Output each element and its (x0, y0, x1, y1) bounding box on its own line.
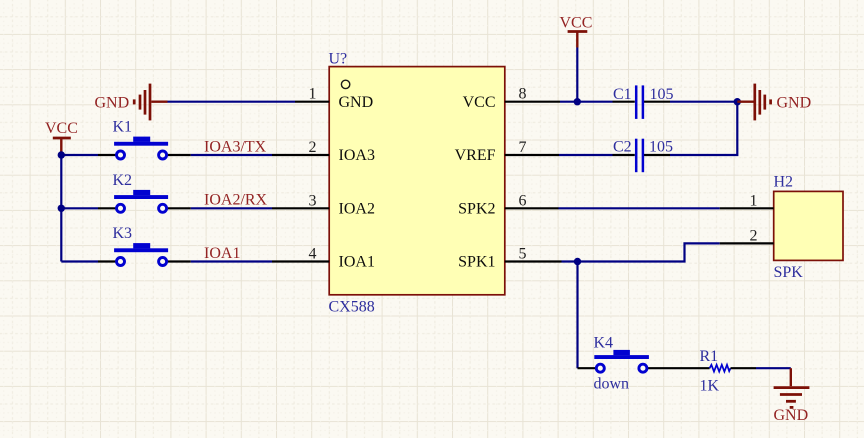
svg-text:3: 3 (309, 192, 317, 209)
svg-text:1: 1 (750, 193, 758, 210)
svg-text:K4: K4 (594, 334, 614, 351)
power port VCC (top) (568, 32, 588, 48)
pin 2 lead (272, 154, 329, 156)
svg-text:GND: GND (774, 407, 809, 424)
svg-text:VCC: VCC (560, 15, 593, 32)
wire VCC down to pin 8 net (576, 48, 578, 102)
power port VCC (left) (53, 138, 71, 152)
junction rail-K1 (58, 151, 65, 158)
pin 6 lead (505, 207, 559, 209)
switch K3 (98, 243, 191, 265)
svg-text:SPK2: SPK2 (458, 200, 495, 217)
resistor R1 (710, 365, 756, 372)
svg-text:IOA3/TX: IOA3/TX (204, 138, 267, 155)
pin 5 lead (505, 260, 562, 262)
wire rail to K1 (61, 154, 98, 156)
svg-text:2: 2 (750, 228, 758, 245)
wire pin 8 to C1 (560, 101, 613, 103)
ground GND (bottom) (774, 368, 810, 407)
svg-text:VCC: VCC (45, 120, 78, 137)
svg-text:H2: H2 (774, 173, 794, 190)
wire rail to K2 (61, 207, 98, 209)
capacitor C2 (613, 139, 671, 173)
svg-text:GND: GND (777, 95, 812, 112)
wire VCC rail vertical (60, 152, 62, 262)
svg-text:VREF: VREF (455, 147, 496, 164)
svg-text:GND: GND (339, 94, 374, 111)
wire C2 up to GND junction (670, 103, 737, 155)
svg-text:C2: C2 (613, 139, 632, 156)
wire R1 to GND (756, 367, 791, 369)
switch K2 (98, 190, 191, 212)
svg-text:R1: R1 (700, 348, 719, 365)
svg-text:6: 6 (519, 192, 527, 209)
svg-text:GND: GND (95, 95, 130, 112)
pin 3 lead (272, 207, 329, 209)
svg-text:K3: K3 (113, 225, 133, 242)
svg-text:8: 8 (519, 86, 527, 103)
svg-text:K2: K2 (113, 172, 133, 189)
svg-text:C1: C1 (613, 86, 632, 103)
pin 7 lead (505, 154, 559, 156)
switch K1 (98, 137, 191, 159)
wire SPK1 down to K4 (576, 262, 578, 369)
wire K2 to pin 3 (191, 207, 272, 209)
svg-text:7: 7 (519, 139, 527, 156)
junction VCC-pin8 (574, 98, 581, 105)
wire K1 to pin 2 (191, 154, 272, 156)
svg-text:CX588: CX588 (329, 299, 375, 316)
svg-text:IOA1: IOA1 (339, 254, 375, 271)
wire K3 to pin 4 (191, 260, 272, 262)
svg-text:105: 105 (650, 86, 674, 103)
junction SPK1 (574, 258, 581, 265)
svg-text:4: 4 (309, 246, 317, 263)
pin 4 lead (272, 260, 329, 262)
op-amp U? : IC body CX588 (329, 67, 505, 295)
pin 8 lead (505, 101, 560, 103)
svg-text:IOA2: IOA2 (339, 200, 375, 217)
svg-text:K1: K1 (113, 119, 133, 136)
wire rail to K3 (61, 260, 98, 262)
svg-text:1K: 1K (700, 377, 720, 394)
svg-text:2: 2 (309, 139, 317, 156)
svg-text:IOA2/RX: IOA2/RX (204, 192, 268, 209)
svg-text:SPK1: SPK1 (458, 254, 495, 271)
wire pin 7 to C2 (559, 154, 613, 156)
svg-text:IOA1: IOA1 (204, 245, 240, 262)
svg-text:VCC: VCC (463, 94, 496, 111)
svg-text:5: 5 (519, 246, 527, 263)
ground GND (right, rotated) (737, 84, 770, 121)
junction C1-GND (734, 98, 741, 105)
svg-text:down: down (594, 376, 630, 393)
capacitor C1 (613, 85, 671, 119)
switch K4 (578, 350, 710, 372)
ground GND (left, rotated) (134, 84, 167, 121)
wire C1 to GND junction (670, 101, 737, 103)
wire pin 5 to H2 pin 2 (jog) (562, 243, 720, 261)
wire pin 6 to H2 pin 1 (559, 207, 720, 209)
svg-text:IOA3: IOA3 (339, 147, 375, 164)
svg-text:1: 1 (309, 86, 317, 103)
pin 1 lead (295, 101, 329, 103)
junction rail-K2 (58, 205, 65, 212)
wire GND to pin 1 (168, 101, 296, 103)
connector H2 (720, 191, 843, 260)
svg-text:105: 105 (649, 139, 673, 156)
svg-text:U?: U? (329, 51, 348, 68)
svg-text:SPK: SPK (774, 264, 804, 281)
